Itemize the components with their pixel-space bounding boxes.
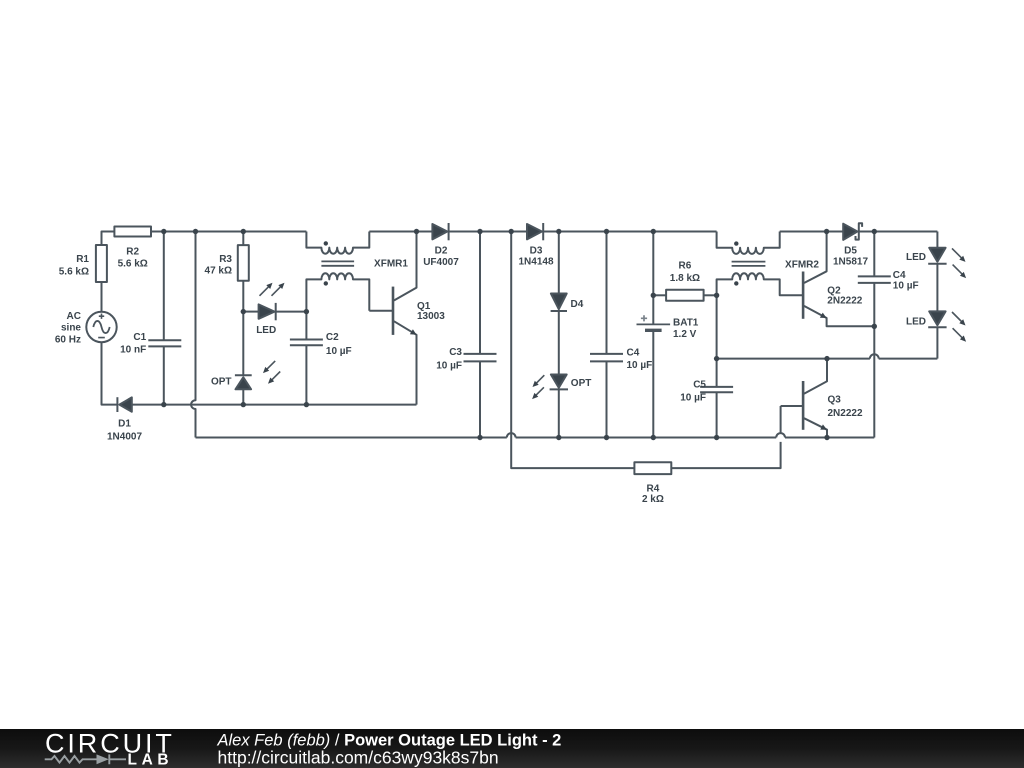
svg-text:R1: R1	[76, 254, 89, 265]
svg-text:C5: C5	[693, 380, 706, 391]
transformer XFMR1 core	[321, 261, 354, 265]
transformer XFMR1 primary winding	[306, 232, 369, 254]
svg-text:5.6 kΩ: 5.6 kΩ	[59, 266, 89, 277]
svg-text:C4: C4	[627, 348, 640, 359]
capacitor C3	[464, 232, 497, 438]
resistor R2	[114, 227, 151, 237]
svg-text:60 Hz: 60 Hz	[55, 335, 81, 346]
svg-text:2 kΩ: 2 kΩ	[642, 494, 664, 505]
svg-text:C4: C4	[893, 270, 906, 281]
wire top rail R2 to XFMR1	[151, 231, 306, 233]
CircuitLab logo diode	[97, 754, 109, 764]
transistor Q2	[802, 272, 805, 319]
capacitor C2	[290, 312, 323, 405]
LED (bottom right)	[929, 311, 945, 325]
svg-text:AC: AC	[67, 311, 81, 322]
svg-text:R3: R3	[219, 254, 232, 265]
svg-text:10 µF: 10 µF	[893, 280, 919, 291]
capacitor C4 (right)	[858, 232, 891, 327]
svg-text:47 kΩ: 47 kΩ	[205, 265, 232, 276]
transformer XFMR1 phase dots	[324, 241, 328, 245]
svg-text:10 µF: 10 µF	[436, 361, 462, 372]
svg-text:R4: R4	[647, 483, 660, 494]
diode D2	[432, 224, 447, 239]
svg-text:10 µF: 10 µF	[627, 360, 653, 371]
svg-text:XFMR2: XFMR2	[785, 260, 819, 271]
svg-text:C2: C2	[326, 332, 339, 343]
voltage source V1 AC sine	[86, 312, 116, 342]
transistor Q1	[392, 287, 395, 335]
svg-text:sine: sine	[61, 323, 81, 334]
transformer XFMR2 core	[732, 262, 766, 266]
wire XFMR2 left branch to C5	[716, 295, 718, 387]
svg-text:BAT1: BAT1	[673, 317, 699, 328]
wire top rail D2 to D3	[449, 231, 527, 233]
wire R4 to Q3 base (with hop over lower rail)	[671, 406, 785, 468]
transistor Q3	[802, 381, 805, 430]
svg-text:D1: D1	[118, 419, 131, 430]
transformer XFMR2 phase dots	[734, 241, 738, 245]
svg-text:1N5817: 1N5817	[833, 257, 868, 268]
wire AC source to bottom-left rail	[102, 342, 118, 404]
resistor R4	[634, 462, 671, 474]
capacitor C5	[700, 387, 733, 438]
wire top rail D3 to XFMR2	[543, 231, 716, 233]
transformer XFMR1 secondary winding	[306, 273, 369, 311]
svg-text:10 nF: 10 nF	[120, 344, 146, 355]
svg-text:1N4148: 1N4148	[518, 257, 553, 268]
svg-text:D3: D3	[530, 246, 543, 257]
svg-text:2N2222: 2N2222	[828, 408, 863, 419]
svg-text:LED: LED	[906, 252, 926, 263]
battery BAT1 plates	[637, 323, 671, 325]
wire Q2 emitter junction down to lower rail	[873, 326, 875, 437]
svg-text:2N2222: 2N2222	[827, 295, 862, 306]
wire bottom-left rail	[132, 404, 417, 406]
junction dots	[161, 229, 877, 440]
wire top rail XFMR1 to D2	[369, 231, 432, 233]
svg-text:UF4007: UF4007	[423, 257, 459, 268]
svg-text:XFMR1: XFMR1	[374, 258, 408, 269]
wire top rail XFMR2 to D5	[780, 231, 844, 233]
capacitor C1	[148, 232, 181, 405]
svg-text:LED: LED	[256, 325, 276, 336]
capacitor C4 (middle)	[590, 232, 623, 438]
wire mid-right horizontal (LED return, with hop)	[717, 354, 938, 358]
wire R4 feedback branch	[511, 232, 634, 469]
svg-text:LAB: LAB	[128, 752, 174, 768]
svg-text:D4: D4	[571, 299, 584, 310]
wire lower rail	[196, 433, 875, 437]
svg-text:1N4007: 1N4007	[107, 431, 142, 442]
diode D1	[116, 397, 118, 412]
transformer XFMR2 primary winding	[717, 232, 780, 254]
LED (left)	[259, 304, 275, 318]
svg-text:10 µF: 10 µF	[326, 346, 352, 357]
photodiode OPT (middle)	[551, 375, 567, 388]
svg-text:OPT: OPT	[211, 377, 232, 388]
svg-text:5.6 kΩ: 5.6 kΩ	[118, 258, 148, 269]
wire LED branch	[243, 311, 258, 313]
CircuitLab logo resistor zigzag	[45, 756, 97, 763]
svg-text:D2: D2	[435, 246, 448, 257]
wire drop from top rail to lower rail (with hop)	[191, 232, 195, 438]
svg-text:1.2 V: 1.2 V	[673, 329, 697, 340]
resistor R1	[96, 245, 107, 282]
svg-text:http://circuitlab.com/c63wy93k: http://circuitlab.com/c63wy93k8s7bn	[218, 748, 499, 768]
svg-text:13003: 13003	[417, 311, 445, 322]
wire R3 to OPT	[242, 281, 244, 376]
resistor R3	[242, 232, 244, 246]
svg-text:D5: D5	[844, 246, 857, 257]
diode D3	[527, 224, 542, 239]
transformer XFMR2 secondary winding	[717, 273, 804, 295]
svg-text:LED: LED	[906, 317, 926, 328]
svg-text:10 µF: 10 µF	[680, 393, 706, 404]
battery BAT1 branch wire	[652, 232, 654, 438]
LED (top right)	[929, 248, 945, 262]
svg-text:Q3: Q3	[828, 395, 842, 406]
svg-text:C1: C1	[133, 332, 146, 343]
svg-text:C3: C3	[449, 347, 462, 358]
schottky diode D5	[843, 224, 857, 240]
photodiode OPT (left)	[235, 374, 252, 376]
diode D4	[558, 232, 560, 294]
transistor Q1 base wire	[369, 310, 393, 312]
wire top rail left segment	[102, 232, 115, 246]
wire top rail D5 to LED string	[859, 231, 938, 233]
resistor R6	[653, 294, 666, 296]
wire R1 to AC source	[101, 282, 103, 312]
svg-text:R2: R2	[126, 247, 139, 258]
svg-text:OPT: OPT	[571, 378, 592, 389]
LED string wire	[936, 232, 938, 248]
svg-text:1.8 kΩ: 1.8 kΩ	[670, 273, 700, 284]
svg-text:R6: R6	[679, 260, 692, 271]
